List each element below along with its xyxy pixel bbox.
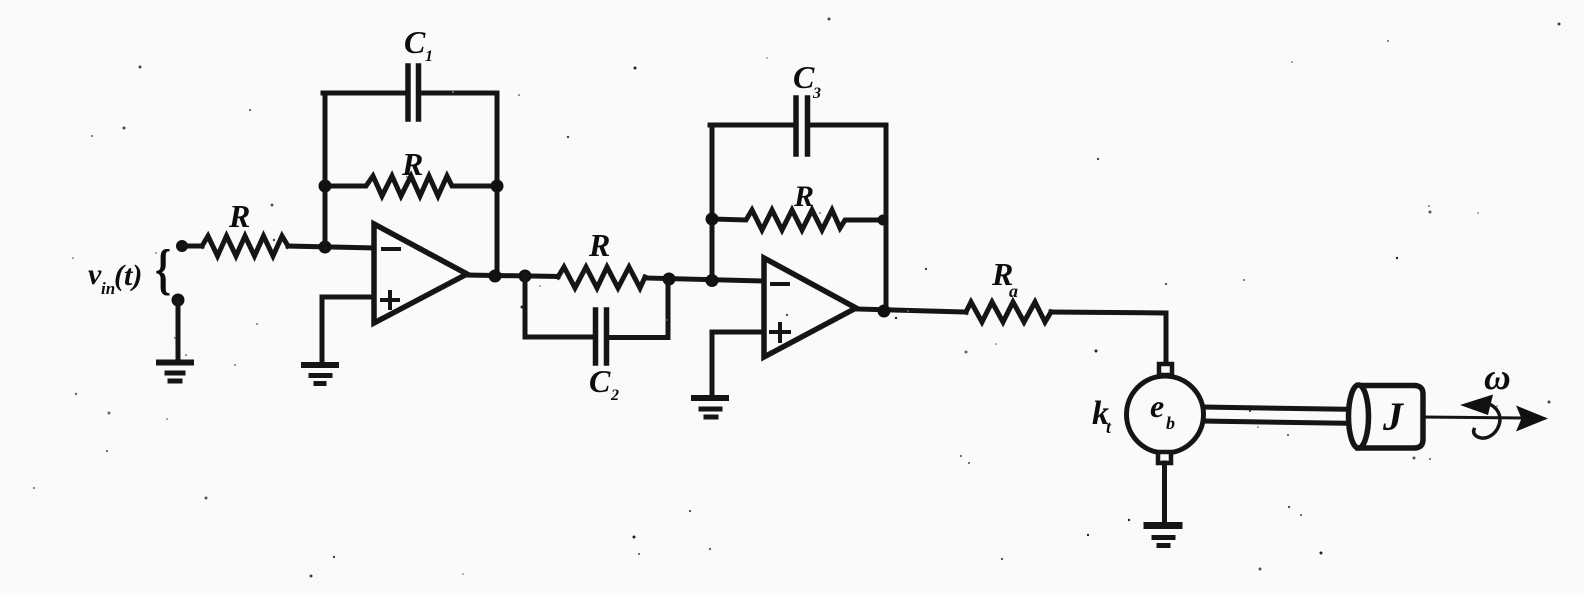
svg-text:1: 1	[425, 48, 433, 65]
svg-text:v: v	[88, 258, 102, 291]
svg-text:(t): (t)	[114, 259, 142, 292]
wire feedback left vertical op1	[323, 93, 328, 247]
wire top row left op2	[710, 123, 793, 128]
svg-text:a: a	[1009, 281, 1018, 301]
resistor R series	[558, 267, 645, 288]
inertia left ellipse	[1349, 385, 1369, 448]
output axis line	[1423, 417, 1522, 418]
node junction right feedback op2	[878, 215, 889, 226]
node A junction	[319, 241, 332, 254]
shaft lines	[1203, 407, 1360, 424]
svg-text:e: e	[1150, 388, 1164, 424]
svg-text:R: R	[588, 227, 610, 263]
svg-text:R: R	[401, 146, 423, 182]
wire top row right op2	[811, 123, 886, 128]
node op2 inverting junction	[706, 274, 719, 287]
terminal motor top	[1159, 364, 1172, 375]
capacitor C3	[796, 98, 808, 154]
svg-text:C: C	[589, 363, 611, 399]
wire motor ground	[1162, 463, 1167, 523]
svg-text:b: b	[1166, 413, 1175, 433]
arrowhead rotation	[1460, 395, 1493, 416]
svg-text:R: R	[228, 198, 250, 234]
svg-text:C: C	[793, 59, 815, 95]
node op2 output junction	[878, 305, 891, 318]
motor circle eb	[1127, 376, 1204, 453]
svg-text:2: 2	[610, 387, 619, 404]
svg-text:3: 3	[812, 85, 821, 102]
wire feedback left vertical op2	[710, 125, 715, 280]
wire to motor	[1051, 312, 1166, 364]
label vin(t)	[88, 238, 171, 301]
capacitor C2 branch left wire	[525, 276, 591, 337]
label C3	[793, 59, 821, 102]
arrowhead omega axis	[1516, 406, 1548, 432]
ground op2 plus	[694, 398, 726, 417]
wire top row left	[323, 91, 405, 96]
wire op1 output	[467, 275, 558, 277]
node junction left feedback	[319, 180, 332, 193]
resistor R feedback op1	[325, 176, 497, 196]
capacitor C2	[596, 310, 607, 363]
wire	[645, 278, 764, 281]
label C1	[404, 24, 433, 65]
wire feedback right vertical op1	[495, 93, 500, 277]
op-amp U1	[374, 224, 467, 323]
node C2 branch junction	[519, 270, 532, 283]
node input lower terminal	[172, 294, 185, 307]
label kt	[1092, 395, 1112, 437]
capacitor C1	[408, 66, 419, 119]
op-amp U2	[764, 258, 856, 357]
wire	[182, 244, 202, 249]
node R C2 right junction	[663, 273, 676, 286]
inertia cylinder J	[1358, 386, 1423, 449]
ground motor	[1147, 526, 1179, 546]
label eb	[1150, 388, 1175, 433]
node junction right feedback	[491, 180, 504, 193]
ground input	[159, 363, 191, 382]
resistor R input	[202, 236, 288, 256]
node op1 output junction	[489, 270, 502, 283]
terminal motor bottom	[1158, 452, 1171, 463]
wire	[176, 300, 181, 361]
svg-text:J: J	[1382, 394, 1405, 439]
wire top row right	[421, 91, 497, 96]
label Ra	[991, 256, 1018, 301]
resistor R feedback op2	[712, 210, 886, 230]
ground op1 plus	[304, 365, 336, 384]
wire op2 output	[856, 309, 966, 312]
capacitor C2 branch right wire	[610, 279, 668, 338]
svg-text:{: {	[155, 238, 171, 301]
wire op1 plus input	[322, 297, 374, 363]
svg-text:t: t	[1106, 417, 1112, 437]
svg-text:R: R	[793, 180, 814, 213]
wire	[288, 246, 374, 248]
label C2	[589, 363, 619, 404]
wire feedback right vertical op2	[884, 125, 889, 311]
resistor Ra	[966, 302, 1051, 322]
node input terminal	[176, 240, 188, 252]
svg-text:ω: ω	[1484, 357, 1511, 398]
node junction left feedback op2	[706, 213, 719, 226]
rotation arc	[1474, 403, 1500, 438]
svg-text:C: C	[404, 24, 426, 60]
wire op2 plus input	[712, 332, 764, 396]
